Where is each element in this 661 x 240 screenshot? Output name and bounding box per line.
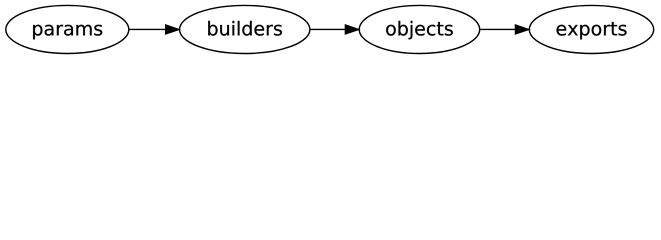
arrowhead builders to objects [345, 25, 359, 35]
label "builders" [208, 21, 282, 36]
edge builders to objects (wire) [310, 28, 346, 30]
label "objects" [386, 21, 453, 39]
edge params to builders (wire) [129, 28, 166, 30]
edge objects to exports (wire) [480, 28, 516, 30]
node exports (ellipse) [529, 5, 653, 53]
background [0, 0, 661, 59]
node builders (ellipse) [180, 5, 310, 53]
arrowhead params to builders [166, 25, 180, 35]
arrowhead objects to exports [515, 25, 529, 35]
label "exports" [557, 22, 627, 39]
label "params" [33, 25, 102, 40]
node params (ellipse) [6, 5, 129, 53]
node objects (ellipse) [359, 5, 480, 53]
